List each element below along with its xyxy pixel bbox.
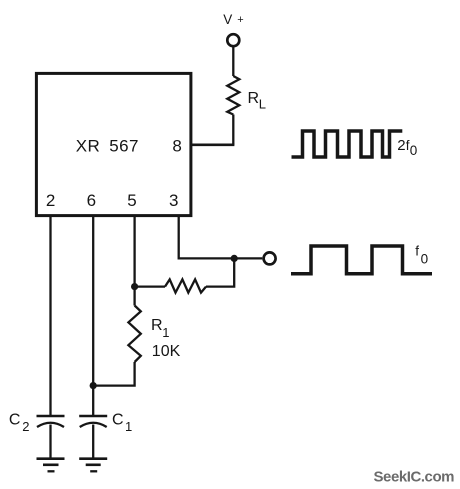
ground C1 [79,459,107,472]
svg-text:10K: 10K [152,343,181,360]
wire RL to pin 8 [190,115,235,145]
watermark SeekIC.com [374,469,455,486]
waveform f0 [291,246,432,274]
svg-text:L: L [259,97,266,112]
svg-text:C: C [112,411,124,428]
wire C2 to ground [49,425,51,459]
pin 3 label [169,191,178,210]
wire pin 3 to output [179,217,263,259]
node junction R1-C1 [90,382,97,389]
ground C2 [37,459,65,472]
wire V+ to RL [232,47,234,76]
svg-text:3: 3 [169,191,178,210]
svg-text:SeekIC.com: SeekIC.com [374,469,455,486]
resistor R1 [128,306,140,363]
svg-text:8: 8 [172,137,181,156]
label C1 [112,411,132,434]
output terminal [264,252,276,264]
label 2f0 [397,137,417,158]
resistor feedback horizontal [165,279,206,292]
svg-text:5: 5 [127,191,136,210]
svg-text:C: C [9,411,21,428]
label R1 [151,317,170,340]
terminal V+ [227,34,239,46]
svg-text:2: 2 [397,137,405,154]
svg-text:R: R [151,317,163,334]
pin 2 label [46,191,55,210]
svg-text:2: 2 [22,419,29,434]
wire pin 6 to C1 [92,217,94,417]
pin 6 label [87,191,96,210]
wire C1 to ground [92,425,94,459]
IC U1 XR567 body [36,73,191,215]
svg-text:0: 0 [421,251,429,266]
svg-text:R: R [248,90,260,107]
label C2 [9,411,30,434]
svg-text:6: 6 [87,191,96,210]
svg-text:567: 567 [109,137,139,156]
svg-text:XR: XR [76,137,101,156]
svg-text:2: 2 [46,191,55,210]
IC label XR 567 [76,137,139,156]
svg-text:1: 1 [125,419,132,434]
wire pin 5 to R1 [133,217,135,306]
svg-text:V: V [223,12,232,27]
svg-text:+: + [237,14,243,26]
wire R1 to node C1 [93,362,134,386]
svg-text:1: 1 [162,325,169,340]
label f0 [415,244,428,267]
node junction pin 5 [131,283,138,290]
svg-text:0: 0 [410,143,418,158]
label RL [248,90,267,112]
resistor RL [227,76,239,115]
svg-text:f: f [415,244,419,259]
node junction output [231,255,238,262]
label V+ [223,12,243,27]
pin 5 label [127,191,136,210]
label 10K [152,343,181,360]
capacitor C2 [37,416,65,427]
capacitor C1 [79,416,107,427]
wire output node down [206,258,234,286]
pin 8 label [172,137,181,156]
wire pin 2 to C2 [49,217,51,417]
wire resistor to pin 5 node [135,285,165,287]
waveform 2f0 [292,131,403,157]
